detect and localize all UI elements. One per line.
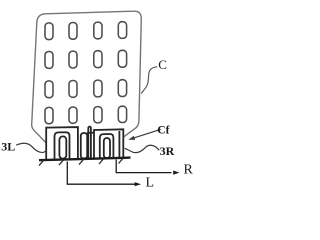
svg-text:C: C	[158, 57, 167, 72]
svg-text:3L: 3L	[1, 139, 15, 153]
svg-text:L: L	[146, 176, 155, 191]
svg-text:3R: 3R	[160, 144, 175, 158]
svg-text:Cf: Cf	[157, 125, 169, 137]
svg-text:R: R	[184, 163, 194, 178]
